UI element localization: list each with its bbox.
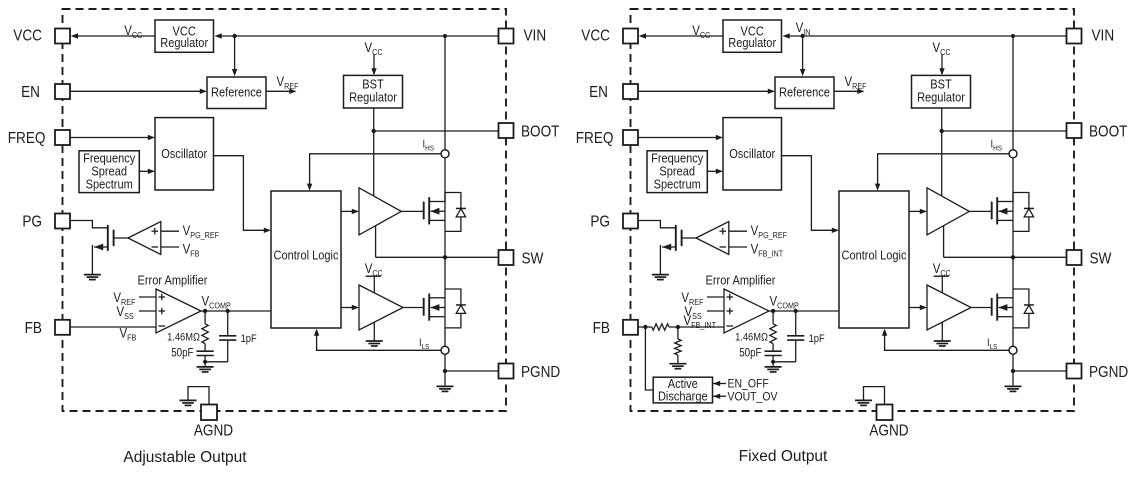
svg-text:Reference: Reference — [211, 85, 262, 100]
svg-text:Regulator: Regulator — [349, 89, 397, 104]
svg-text:EN: EN — [21, 84, 40, 101]
svg-text:Spectrum: Spectrum — [86, 176, 133, 191]
svg-text:Reference: Reference — [779, 85, 830, 100]
svg-text:PGND: PGND — [521, 364, 560, 381]
svg-text:FB: FB — [593, 320, 610, 337]
svg-text:50pF: 50pF — [739, 347, 762, 360]
svg-text:Control Logic: Control Logic — [841, 248, 906, 263]
svg-text:Control Logic: Control Logic — [273, 248, 338, 263]
svg-text:VCC: VCC — [581, 27, 610, 44]
svg-text:BOOT: BOOT — [1089, 123, 1127, 140]
svg-text:AGND: AGND — [194, 423, 233, 440]
svg-text:EN: EN — [589, 84, 608, 101]
svg-text:PG: PG — [22, 214, 42, 231]
svg-text:Adjustable Output: Adjustable Output — [123, 449, 247, 466]
svg-text:SW: SW — [522, 250, 544, 267]
svg-text:Error Amplifier: Error Amplifier — [137, 272, 207, 287]
svg-text:AGND: AGND — [869, 423, 908, 440]
svg-text:PGND: PGND — [1089, 364, 1128, 381]
svg-text:1pF: 1pF — [241, 333, 257, 345]
svg-text:Oscillator: Oscillator — [161, 146, 207, 161]
svg-text:Regulator: Regulator — [917, 89, 965, 104]
svg-text:VOUT_OV: VOUT_OV — [727, 391, 777, 404]
svg-text:VCC: VCC — [13, 27, 42, 44]
svg-text:1.46MΩ: 1.46MΩ — [735, 332, 768, 344]
svg-text:VIN: VIN — [523, 28, 546, 45]
svg-text:FREQ: FREQ — [8, 130, 46, 147]
svg-text:EN_OFF: EN_OFF — [727, 378, 768, 391]
svg-text:PG: PG — [590, 214, 610, 231]
svg-text:Fixed Output: Fixed Output — [739, 448, 828, 465]
svg-text:FREQ: FREQ — [576, 130, 614, 147]
svg-text:1pF: 1pF — [809, 333, 825, 345]
svg-text:Regulator: Regulator — [160, 35, 208, 50]
svg-text:VIN: VIN — [1091, 28, 1114, 45]
svg-text:Spectrum: Spectrum — [654, 176, 701, 191]
svg-text:Error Amplifier: Error Amplifier — [705, 272, 775, 287]
svg-text:SW: SW — [1090, 250, 1112, 267]
svg-text:BOOT: BOOT — [521, 123, 559, 140]
svg-text:Regulator: Regulator — [728, 35, 776, 50]
svg-text:1.46MΩ: 1.46MΩ — [167, 332, 200, 344]
svg-text:50pF: 50pF — [171, 347, 194, 360]
svg-text:Discharge: Discharge — [658, 388, 708, 403]
svg-text:Oscillator: Oscillator — [729, 146, 775, 161]
svg-text:FB: FB — [25, 320, 42, 337]
